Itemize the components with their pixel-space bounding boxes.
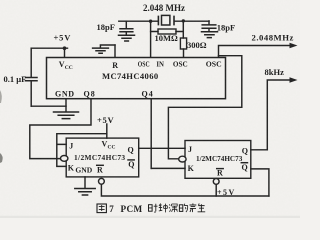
ground (under U2)	[75, 177, 95, 195]
wire OSC pin to 2.048MHz output	[219, 46, 294, 58]
pin K (U3)	[188, 164, 195, 173]
wire Rbar U2 to +5V net	[101, 184, 269, 196]
wire Qbar U3 feedback	[251, 169, 269, 196]
node A (crystal left junction)	[149, 20, 152, 23]
wire OSC pin jog to clock of U3	[168, 56, 241, 159]
wire Q U3 to 8kHz line	[251, 149, 267, 151]
value 300 ohm	[187, 40, 207, 50]
pin J (U3)	[188, 145, 192, 154]
flip-flop U2 1/2MC74HC73 box	[66, 138, 139, 177]
clock bubble (U3)	[179, 156, 186, 162]
capacitor C3 0.1uF	[26, 48, 38, 106]
pin GND (U2)	[75, 165, 92, 174]
wire +5V rail	[31, 47, 67, 49]
wire 300 ohm to OSC pin	[183, 49, 185, 57]
glyph 生	[198, 204, 206, 212]
wire Vcc pin	[64, 48, 66, 57]
ground (under C1)	[119, 35, 135, 41]
arrow 8kHz output	[290, 77, 298, 82]
ground (under U1 GND)	[54, 99, 79, 119]
glyph 源	[169, 204, 178, 212]
value 18pF (right)	[217, 23, 235, 33]
scan smudge left edge	[0, 90, 2, 103]
label 1/2MC74HC73 (U3)	[196, 155, 243, 163]
capacitor C1 18pF (left)	[120, 21, 133, 35]
label +5V (above U2)	[97, 115, 114, 125]
glyph 图	[97, 204, 106, 213]
reset bubble (U3)	[213, 179, 219, 185]
wire 8kHz output from Q of U3	[267, 80, 293, 150]
label 8kHz	[265, 67, 285, 77]
pin Q (U2)	[128, 146, 134, 155]
clock bubble (U2)	[60, 156, 67, 162]
capacitor C2 18pF (right)	[202, 21, 216, 31]
label MC74HC4060	[102, 71, 159, 81]
reset bubble (U2)	[99, 178, 105, 184]
pin Qbar (U3)	[242, 163, 248, 172]
pin Qbar (U2)	[128, 160, 134, 169]
glyph 钟	[159, 204, 168, 213]
ground (above R pin)	[93, 45, 115, 57]
label 1/2MC74HC73 (U2)	[74, 153, 125, 162]
pin J (U2)	[69, 141, 73, 150]
IC U1 MC74HC4060 box	[47, 58, 226, 99]
wire Rbar U3 stem	[215, 184, 217, 196]
ground (under C2)	[202, 32, 218, 38]
wire Q8 to clock of U2	[30, 99, 91, 159]
glyph 产	[190, 203, 197, 212]
wire crystal top rail	[119, 20, 209, 22]
wire K line to U3	[151, 167, 185, 169]
wire J K tie to +5V	[57, 134, 107, 167]
pin Q4 (U1)	[142, 89, 154, 98]
wire Q4 down	[150, 99, 152, 168]
wire C3 bottom to ground	[31, 105, 66, 107]
value 0.1 uF	[4, 74, 27, 84]
node C (Vcc junction dot)	[63, 46, 67, 50]
pin K (U2)	[68, 164, 75, 173]
wire OSC IN vertical	[150, 21, 152, 57]
pin Rbar (U3)	[217, 169, 223, 178]
wire Q of U2 to J of U3	[139, 147, 185, 149]
glyph 的	[179, 204, 187, 212]
crystal Y1	[158, 15, 174, 25]
wire +5V to Vcc of U2	[106, 124, 108, 138]
glyph 时	[149, 204, 158, 212]
pin OSC IN (U1)	[138, 60, 188, 69]
pin R (U1)	[112, 61, 118, 70]
label +5V (top left)	[54, 33, 72, 43]
resistor R2 300	[180, 38, 186, 49]
pin Vcc (U1)	[59, 60, 73, 71]
pin OSC (U1)	[206, 60, 222, 69]
value 18pF (left)	[97, 22, 115, 32]
arrow 2.048MHz output	[290, 43, 298, 48]
pin Q (U3)	[242, 147, 248, 156]
pin Rbar (U2)	[97, 165, 103, 174]
node B (crystal right junction)	[182, 19, 185, 22]
value 10M ohm	[155, 33, 179, 43]
label +5V (reset net)	[217, 188, 236, 197]
label 2.048 MHz (crystal)	[143, 3, 185, 13]
pin Q8 (U1)	[84, 89, 96, 98]
label 2.048 MHz (output)	[252, 33, 294, 43]
flip-flop U3 1/2MC74HC73 box	[185, 141, 251, 179]
wire crystal right down	[182, 21, 184, 38]
pin Vcc (U2)	[102, 139, 116, 150]
pin GND (U1)	[55, 89, 75, 98]
resistor R1 10M	[151, 29, 184, 34]
caption 图7 PCM clock caption	[97, 203, 205, 214]
